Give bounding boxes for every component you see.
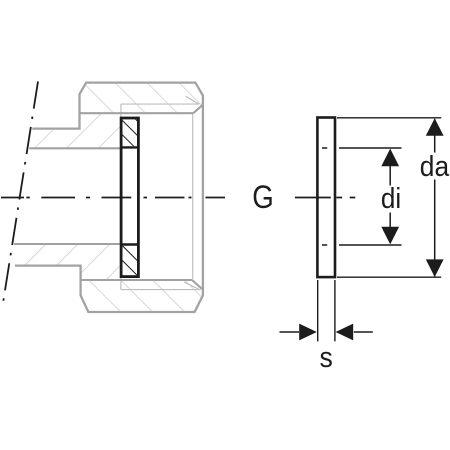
svg-text:da: da (420, 151, 449, 183)
fitting body hatch top band (80, 83, 203, 114)
extension lines s (318, 280, 335, 341)
fitting body hatch tube bottom wall and left lower block (14, 244, 121, 280)
gasket outline (121, 118, 138, 277)
svg-text:di: di (381, 183, 401, 215)
svg-text:s: s (320, 342, 333, 374)
fitting outer outline (15, 83, 203, 312)
gasket section hatch top (122, 119, 137, 146)
gasket section body (left view) (121, 118, 138, 277)
dimension arrows s (280, 331, 373, 333)
dimension line di (389, 166, 391, 227)
fitting body hatch left upper block and tube top wall (29, 113, 121, 148)
gasket inner bore edges (122, 147, 137, 244)
extension line di top (322, 147, 402, 149)
gasket side view rectangle (317, 118, 335, 278)
horizontal centerline (1, 197, 355, 199)
fitting body hatch bottom band (81, 280, 203, 312)
bore silhouette thin lines (121, 96, 201, 290)
extension line da bottom (337, 276, 441, 278)
gasket section hatch bottom (122, 246, 137, 275)
fitting inner gray lines (14, 105, 202, 289)
dimension line da (434, 119, 436, 276)
extension line di bottom (322, 244, 402, 246)
diagonal centerline (2, 82, 38, 308)
svg-text:G: G (252, 179, 274, 215)
extension line da top (337, 117, 441, 119)
